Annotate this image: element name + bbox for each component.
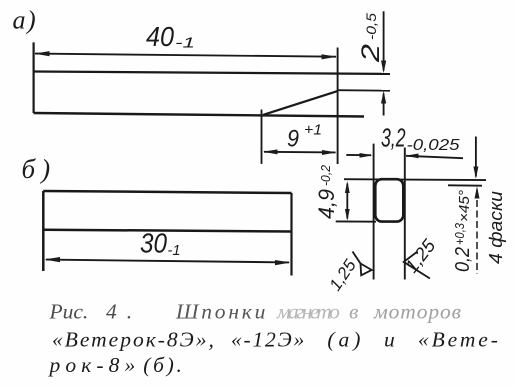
svg-text:«Вете-: «Вете- [418,327,501,351]
svg-text:+0,3: +0,3 [453,223,467,245]
svg-text:4.: 4. [106,300,142,324]
svg-text:3,2: 3,2 [381,123,406,153]
svg-text:б): б) [22,154,57,184]
svg-text:-1: -1 [168,242,181,259]
svg-text:4 фаски: 4 фаски [486,191,506,264]
svg-text:рок-8»: рок-8» [48,353,141,377]
svg-text:и: и [384,327,395,351]
svg-text:Шпонки: Шпонки [175,300,268,324]
svg-text:2: 2 [357,44,385,63]
svg-text:-1: -1 [175,35,195,52]
svg-text:«-12Э»: «-12Э» [231,327,306,351]
svg-text:4,9: 4,9 [314,189,339,219]
svg-text:«Ветерок-8Э»,: «Ветерок-8Э», [52,327,216,351]
svg-text:+1: +1 [304,122,322,139]
svg-text:моторов: моторов [373,300,462,324]
svg-text:в: в [349,300,358,324]
svg-text:(б).: (б). [143,353,184,377]
svg-text:Рис.: Рис. [49,300,89,324]
svg-text:-0,5: -0,5 [363,13,379,40]
svg-text:9: 9 [287,126,299,153]
svg-text:40: 40 [146,21,174,52]
svg-text:1,25: 1,25 [326,256,361,295]
svg-text:0,2: 0,2 [452,247,474,272]
svg-text:1,25: 1,25 [401,235,440,277]
svg-text:-0,2: -0,2 [318,164,333,186]
svg-text:магнето: магнето [276,300,340,324]
svg-text:а): а) [13,6,38,35]
svg-text:-0,025: -0,025 [407,137,460,154]
svg-text:×45°: ×45° [456,190,473,222]
svg-text:(а): (а) [327,327,364,351]
svg-text:30: 30 [140,228,167,259]
